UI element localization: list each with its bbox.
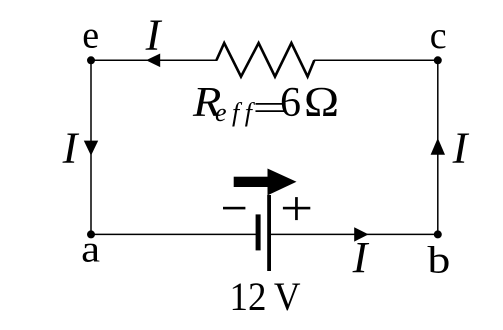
current arrow on right wire (pointing up)	[431, 138, 445, 155]
battery plus sign	[283, 197, 310, 220]
battery minus sign	[223, 207, 245, 210]
resistor R_eff (zigzag)	[216, 43, 314, 77]
wire right: node c to node b	[437, 60, 439, 234]
current arrow on bottom wire (pointing right)	[354, 227, 368, 241]
svg-text:eff: eff	[215, 98, 258, 127]
battery V1 negative plate (short)	[256, 214, 261, 250]
resistor value label R_eff = 6 Ohm	[192, 78, 339, 128]
svg-text:a: a	[81, 228, 100, 270]
svg-text:I: I	[452, 123, 470, 173]
emf direction thick arrow	[234, 169, 297, 196]
node c (dot)	[434, 56, 442, 64]
svg-text:6: 6	[280, 80, 301, 126]
svg-text:I: I	[352, 232, 370, 282]
wire top-right: resistor to node c	[314, 59, 438, 61]
svg-text:c: c	[430, 15, 447, 57]
wire left: node e to node a	[90, 60, 92, 234]
node a (dot)	[87, 230, 95, 238]
wire bottom-left: node a to battery	[91, 233, 256, 235]
node b (dot)	[434, 230, 442, 238]
node e (dot)	[87, 56, 95, 64]
wire top-left: node e to resistor	[91, 59, 217, 61]
node a label	[81, 228, 100, 270]
current arrow on left wire (pointing down)	[84, 141, 98, 156]
battery V1 positive plate (long)	[267, 195, 271, 271]
svg-text:Ω: Ω	[304, 78, 339, 125]
svg-text:e: e	[82, 15, 99, 57]
svg-text:b: b	[428, 240, 451, 282]
svg-text:I: I	[62, 123, 80, 173]
wire bottom-right: battery to node b	[271, 233, 438, 235]
svg-text:12 V: 12 V	[230, 274, 301, 319]
svg-text:I: I	[145, 10, 163, 60]
current arrow on top wire (pointing left)	[146, 54, 160, 68]
node b label	[428, 240, 451, 282]
